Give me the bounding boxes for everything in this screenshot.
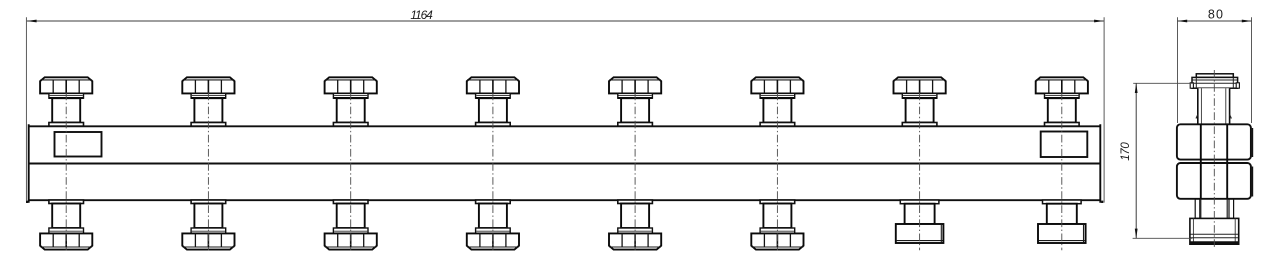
- manifold body outline: [28, 124, 1101, 203]
- dimension 80 extension line left: [1177, 17, 1179, 123]
- side view: top union nut collar: [1190, 77, 1239, 88]
- top washer col 8: [1045, 93, 1080, 98]
- right nameplate on upper bar: [1041, 132, 1088, 158]
- top flange col 6: [760, 123, 795, 127]
- centerline col 2: [207, 93, 209, 251]
- centerline col 8: [1061, 93, 1063, 251]
- bottom flange col 1: [49, 200, 84, 204]
- top hex plug col 8: [1036, 77, 1088, 93]
- bottom neck col 2: [194, 204, 222, 229]
- bottom washer col 6: [760, 228, 795, 233]
- dimension 80 extension line right: [1251, 17, 1253, 123]
- top flange col 7: [902, 123, 937, 127]
- bottom hex nut col 1: [40, 233, 92, 249]
- top neck col 5: [621, 98, 649, 122]
- bottom hex nut col 5: [609, 233, 661, 249]
- side view: tube in gap: [1201, 160, 1227, 163]
- top flange col 8: [1045, 123, 1080, 127]
- top neck col 8: [1048, 98, 1076, 122]
- top neck col 4: [479, 98, 507, 122]
- bottom flange col 2: [191, 200, 226, 204]
- bottom flange col 7: [900, 200, 939, 204]
- side view: lower block: [1177, 163, 1253, 199]
- top hex plug col 5: [609, 77, 661, 93]
- centerline col 1: [65, 93, 67, 251]
- right end plate edge: [1101, 201, 1103, 203]
- dimension line 80: [1177, 20, 1252, 23]
- top hex plug col 2: [182, 77, 234, 93]
- dimension 170 extension line top: [1133, 82, 1193, 84]
- bottom washer col 5: [618, 228, 653, 233]
- bottom flange col 5: [618, 200, 653, 204]
- top neck col 7: [906, 98, 934, 122]
- top flange col 1: [49, 123, 84, 127]
- top neck col 6: [763, 98, 791, 122]
- side view: upper block: [1177, 124, 1253, 159]
- top hex plug col 4: [467, 77, 519, 93]
- top flange col 5: [618, 123, 653, 127]
- bottom sleeve col 8: [1038, 224, 1086, 243]
- top neck col 3: [337, 98, 365, 122]
- bottom flange col 3: [333, 200, 368, 204]
- bottom hex nut col 6: [751, 233, 803, 249]
- dimension 1164 extension line left: [25, 17, 27, 201]
- top hex plug col 7: [894, 77, 946, 93]
- bottom neck col 3: [337, 204, 365, 229]
- bottom washer col 2: [191, 228, 226, 233]
- top flange col 3: [333, 123, 368, 127]
- centerline col 5: [634, 93, 636, 251]
- centerline col 6: [776, 93, 778, 251]
- side view: bottom union nut collar: [1190, 218, 1239, 244]
- top washer col 4: [476, 93, 511, 98]
- body divider line between upper and lower bar: [28, 163, 1101, 165]
- bottom hex nut col 2: [182, 233, 234, 249]
- bottom sleeve col 7: [896, 224, 944, 243]
- dimension line 1164: [27, 20, 1105, 23]
- top washer col 2: [191, 93, 226, 98]
- bottom flange col 6: [760, 200, 795, 204]
- top washer col 5: [618, 93, 653, 98]
- bottom hex nut col 4: [467, 233, 519, 249]
- bottom flange col 4: [476, 200, 511, 204]
- left end plate edge: [26, 201, 28, 203]
- top flange col 2: [191, 123, 226, 127]
- left nameplate on upper bar: [55, 132, 102, 157]
- bottom neck col 5: [621, 204, 649, 229]
- top hex plug col 6: [751, 77, 803, 93]
- dimension line 170: [1135, 83, 1138, 239]
- top flange col 4: [476, 123, 511, 127]
- top washer col 7: [902, 93, 937, 98]
- top washer col 1: [49, 93, 84, 98]
- bottom neck col 6: [763, 204, 791, 229]
- side view centerline: [1213, 70, 1215, 248]
- centerline col 4: [492, 93, 494, 251]
- centerline col 3: [350, 93, 352, 251]
- bottom washer col 4: [476, 228, 511, 233]
- bottom neck col 1: [52, 204, 80, 229]
- bottom neck col 8: [1047, 204, 1077, 224]
- side view: bottom sleeve walls: [1195, 199, 1233, 218]
- bottom washer col 1: [49, 228, 84, 233]
- top hex plug col 3: [325, 77, 377, 93]
- svg-text:170: 170: [1120, 142, 1132, 161]
- centerline col 7: [919, 93, 921, 251]
- top neck col 1: [52, 98, 80, 122]
- bottom neck col 4: [479, 204, 507, 229]
- svg-text:80: 80: [1208, 8, 1223, 22]
- side view: top pipe stub plate: [1196, 74, 1233, 78]
- svg-text:1164: 1164: [410, 8, 433, 22]
- dimension 170 extension line bottom: [1133, 237, 1193, 239]
- top hex plug col 1: [40, 77, 92, 93]
- bottom washer col 3: [333, 228, 368, 233]
- top washer col 3: [333, 93, 368, 98]
- dimension 1164 extension line right: [1103, 17, 1105, 202]
- side view: top neck: [1196, 88, 1231, 124]
- bottom flange col 8: [1043, 200, 1082, 204]
- top washer col 6: [760, 93, 795, 98]
- top neck col 2: [194, 98, 222, 122]
- bottom hex nut col 3: [325, 233, 377, 249]
- bottom neck col 7: [905, 204, 935, 224]
